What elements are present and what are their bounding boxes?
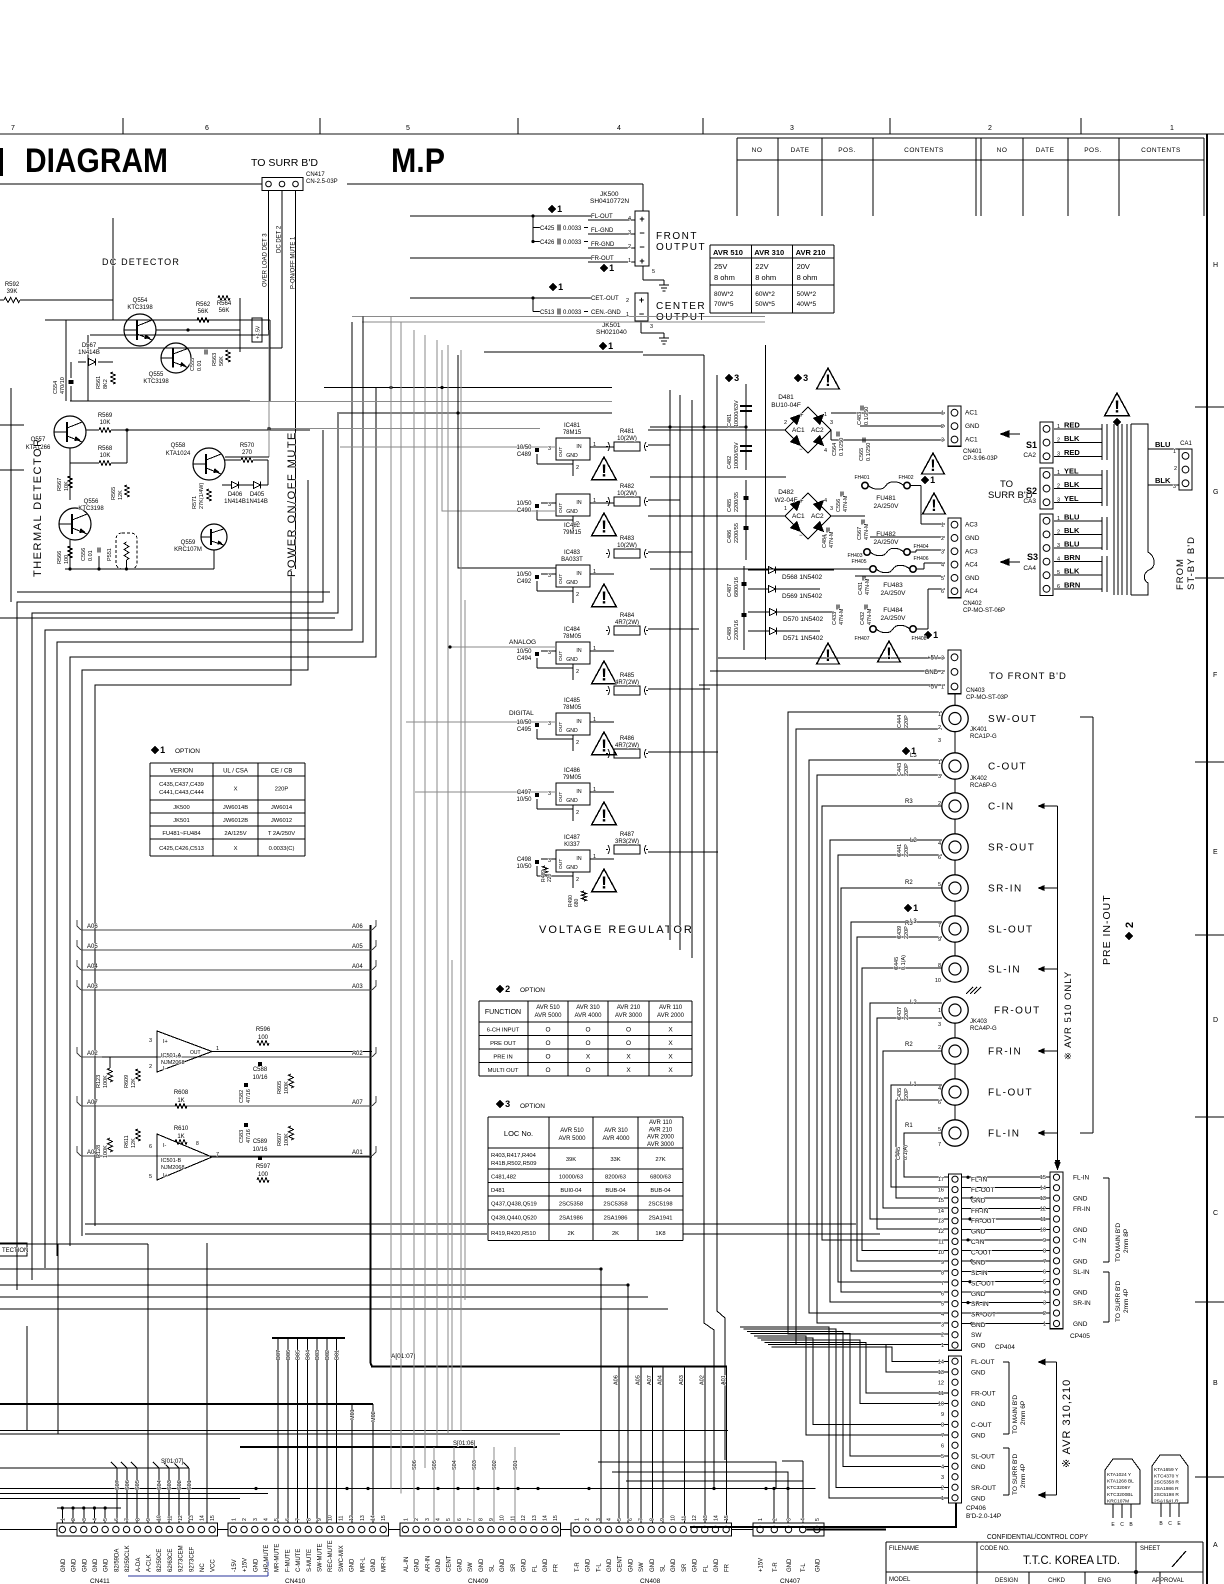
- svg-text:D567: D567: [82, 343, 97, 349]
- svg-text:C-IN: C-IN: [1073, 1237, 1087, 1244]
- svg-text:C481: C481: [727, 414, 733, 427]
- svg-text:8: 8: [196, 1141, 199, 1147]
- svg-text:C: C: [1213, 1210, 1218, 1217]
- svg-text:6: 6: [938, 1100, 941, 1106]
- svg-text:S02: S02: [177, 1480, 183, 1490]
- svg-text:3: 3: [82, 1518, 88, 1521]
- svg-text:FR-OUT: FR-OUT: [971, 1218, 996, 1225]
- svg-text:!: !: [601, 461, 607, 481]
- svg-text:5: 5: [941, 1302, 944, 1308]
- svg-text:BLK: BLK: [1064, 526, 1080, 535]
- svg-text:0.01: 0.01: [88, 550, 94, 561]
- svg-text:!: !: [825, 647, 830, 665]
- svg-text:TECTION: TECTION: [2, 1248, 28, 1254]
- svg-text:OUT: OUT: [558, 574, 564, 584]
- svg-text:S01: S01: [513, 1460, 519, 1470]
- svg-text:GND: GND: [971, 1432, 986, 1439]
- svg-text:FU481: FU481: [876, 495, 896, 502]
- svg-text:S05: S05: [135, 1480, 141, 1490]
- svg-text:1: 1: [593, 498, 596, 504]
- svg-text:8: 8: [938, 963, 941, 969]
- svg-text:O: O: [585, 1027, 590, 1034]
- svg-text:CN409: CN409: [468, 1578, 489, 1584]
- svg-text:SL-OUT: SL-OUT: [971, 1453, 995, 1460]
- svg-text:4: 4: [92, 1518, 98, 1521]
- svg-text:9: 9: [146, 1518, 152, 1521]
- svg-text:SR-IN: SR-IN: [988, 884, 1023, 895]
- svg-text:R570: R570: [240, 443, 255, 449]
- svg-text:C487: C487: [727, 584, 733, 597]
- svg-text:SW: SW: [639, 1562, 645, 1572]
- svg-text:TO MAIN B'D: TO MAIN B'D: [1012, 1395, 1019, 1434]
- svg-text:AC2: AC2: [811, 427, 824, 434]
- svg-text:7: 7: [296, 1518, 302, 1521]
- svg-text:TO FRONT B'D: TO FRONT B'D: [989, 671, 1067, 682]
- svg-text:2: 2: [585, 1518, 591, 1521]
- svg-text:KTA1024: KTA1024: [166, 451, 191, 457]
- svg-text:R566: R566: [57, 551, 63, 564]
- svg-text:2SA1986 R: 2SA1986 R: [1154, 1486, 1179, 1492]
- svg-text:C554: C554: [53, 381, 59, 394]
- svg-text:10/16: 10/16: [252, 1075, 268, 1081]
- svg-text:GND: GND: [543, 1558, 549, 1572]
- svg-text:A07: A07: [87, 1100, 98, 1106]
- svg-text:O: O: [545, 1067, 550, 1074]
- svg-text:11: 11: [681, 1516, 687, 1521]
- svg-text:2A/250V: 2A/250V: [874, 539, 900, 546]
- svg-text:3: 3: [548, 721, 551, 727]
- svg-text:RCA6P-G: RCA6P-G: [970, 783, 997, 789]
- svg-text:R482: R482: [620, 484, 635, 490]
- svg-text:FILENAME: FILENAME: [889, 1546, 919, 1552]
- svg-text:2SC5358: 2SC5358: [559, 1202, 583, 1208]
- svg-text:C435: C435: [897, 1088, 903, 1101]
- svg-text:3: 3: [790, 125, 794, 132]
- svg-text:OUT: OUT: [190, 1050, 201, 1056]
- svg-text:12K: 12K: [118, 490, 124, 500]
- svg-text:10: 10: [157, 1515, 163, 1521]
- svg-text:2: 2: [772, 1518, 778, 1521]
- svg-text:6: 6: [941, 589, 944, 595]
- svg-text:R3: R3: [905, 921, 913, 927]
- svg-text:CODE NO.: CODE NO.: [980, 1546, 1010, 1552]
- svg-text:S02: S02: [492, 1460, 498, 1470]
- svg-text:12: 12: [938, 1229, 944, 1235]
- svg-text:1K8: 1K8: [655, 1231, 665, 1237]
- svg-text:R2: R2: [905, 1042, 913, 1048]
- svg-text:IN: IN: [576, 444, 581, 450]
- svg-text:D06: D06: [286, 1350, 292, 1360]
- svg-text:FR: FR: [554, 1563, 560, 1572]
- svg-text:OVER LOAD DET 3: OVER LOAD DET 3: [263, 233, 269, 287]
- svg-text:220P: 220P: [904, 844, 910, 857]
- svg-text:C489: C489: [517, 452, 532, 458]
- svg-text:HP-MUTE: HP-MUTE: [264, 1545, 270, 1572]
- svg-text:A05: A05: [87, 944, 98, 950]
- svg-text:8 ohm: 8 ohm: [755, 273, 776, 282]
- svg-text:2A/250V: 2A/250V: [881, 615, 907, 622]
- svg-text:S[01:07]: S[01:07]: [161, 1459, 184, 1465]
- svg-text:6: 6: [1043, 1269, 1046, 1275]
- svg-text:10: 10: [938, 1401, 944, 1407]
- svg-text:L1: L1: [910, 1082, 917, 1088]
- svg-text:2: 2: [988, 125, 992, 132]
- svg-text:2: 2: [1174, 466, 1177, 472]
- svg-text:GND: GND: [971, 1369, 986, 1376]
- svg-text:!: !: [601, 588, 607, 608]
- svg-text:CP404: CP404: [995, 1344, 1015, 1351]
- svg-text:C583: C583: [239, 1130, 245, 1143]
- svg-text:KTC3206Y: KTC3206Y: [1107, 1485, 1131, 1491]
- svg-text:7: 7: [1043, 1259, 1046, 1265]
- svg-text:A04: A04: [658, 1375, 664, 1385]
- svg-text:3: 3: [628, 230, 631, 236]
- svg-text:RCA4P-G: RCA4P-G: [970, 1026, 997, 1032]
- svg-text:GND: GND: [586, 1558, 592, 1572]
- svg-text:10: 10: [1040, 1227, 1046, 1233]
- svg-text:0.0033(C): 0.0033(C): [269, 846, 295, 852]
- svg-text:R564: R564: [217, 301, 232, 307]
- svg-text:JK501: JK501: [602, 322, 621, 329]
- svg-text:AVR 510: AVR 510: [713, 248, 743, 257]
- svg-text:2: 2: [576, 877, 579, 883]
- svg-text:KRC107M: KRC107M: [1107, 1498, 1129, 1504]
- svg-text:82/59DA: 82/59DA: [114, 1549, 120, 1572]
- svg-text:5: 5: [938, 882, 941, 888]
- svg-text:R487: R487: [620, 832, 635, 838]
- svg-text:4: 4: [941, 1312, 944, 1318]
- svg-text:BRN: BRN: [1064, 580, 1080, 589]
- svg-text:AVR 210: AVR 210: [617, 1005, 641, 1011]
- svg-text:AVR 4000: AVR 4000: [603, 1136, 631, 1142]
- svg-text:I-: I-: [163, 1143, 167, 1149]
- svg-text:CN401: CN401: [963, 449, 982, 455]
- svg-text:3: 3: [941, 438, 944, 444]
- svg-text:S[01:06]: S[01:06]: [453, 1441, 476, 1447]
- svg-text:82/59CLK: 82/59CLK: [125, 1545, 131, 1572]
- svg-text:AVR 510: AVR 510: [536, 1005, 560, 1011]
- svg-text:9: 9: [317, 1518, 323, 1521]
- svg-text:Q439,Q440,Q520: Q439,Q440,Q520: [491, 1216, 537, 1222]
- svg-text:100K: 100K: [103, 1145, 109, 1158]
- svg-text:Q559: Q559: [181, 540, 196, 546]
- svg-text:3: 3: [941, 1475, 944, 1481]
- svg-text:1: 1: [941, 411, 944, 417]
- svg-text:R484: R484: [620, 613, 635, 619]
- svg-text:8: 8: [941, 1422, 944, 1428]
- svg-text:2: 2: [414, 1518, 420, 1521]
- svg-text:3: 3: [548, 573, 551, 579]
- svg-text:AVR 510: AVR 510: [560, 1128, 584, 1134]
- svg-text:KTC3198: KTC3198: [127, 305, 153, 311]
- svg-text:G: G: [1213, 489, 1218, 496]
- svg-text:10(2W): 10(2W): [617, 543, 637, 549]
- svg-text:C582: C582: [239, 1090, 245, 1103]
- svg-text:H: H: [1213, 262, 1218, 269]
- svg-text:CN417: CN417: [306, 172, 325, 178]
- svg-text:+4.5V: +4.5V: [256, 325, 262, 339]
- svg-text:AC2: AC2: [811, 513, 824, 520]
- svg-text:M01: M01: [350, 1409, 356, 1420]
- svg-text:GND: GND: [628, 1558, 634, 1572]
- svg-text:14: 14: [370, 1515, 376, 1521]
- svg-text:2: 2: [628, 244, 631, 250]
- svg-text:10/50: 10/50: [516, 572, 532, 578]
- svg-text:12K: 12K: [131, 1138, 137, 1148]
- svg-text:GND: GND: [72, 1558, 78, 1572]
- svg-text:FU484: FU484: [883, 607, 903, 614]
- svg-text:S04: S04: [157, 1480, 163, 1490]
- svg-text:SR-OUT: SR-OUT: [971, 1485, 996, 1492]
- svg-text:AVR 2000: AVR 2000: [647, 1135, 675, 1141]
- svg-text:FRONT: FRONT: [656, 231, 698, 242]
- svg-text:8 ohm: 8 ohm: [797, 273, 818, 282]
- svg-text:IC487: IC487: [564, 835, 581, 841]
- svg-text:1: 1: [558, 282, 563, 292]
- svg-text:4R7(2W): 4R7(2W): [615, 620, 639, 626]
- svg-text:SW-OUT: SW-OUT: [988, 714, 1037, 725]
- svg-text:FR-IN: FR-IN: [988, 1047, 1022, 1058]
- svg-text:OUT: OUT: [558, 447, 564, 457]
- svg-text:3: 3: [505, 1099, 510, 1109]
- svg-text:LOC No.: LOC No.: [504, 1129, 533, 1138]
- svg-text:10: 10: [671, 1515, 677, 1521]
- svg-text:CN411: CN411: [90, 1578, 110, 1584]
- svg-text:A05: A05: [636, 1375, 642, 1385]
- svg-text:GND: GND: [965, 535, 980, 542]
- svg-text:FH407: FH407: [854, 636, 869, 642]
- svg-text:IN: IN: [576, 500, 581, 506]
- svg-text:KTC3198: KTC3198: [143, 379, 169, 385]
- svg-text:L2: L2: [910, 838, 917, 844]
- svg-text:RED: RED: [1064, 448, 1080, 457]
- svg-text:D01: D01: [335, 1350, 341, 1360]
- svg-text:4: 4: [801, 1518, 807, 1521]
- svg-text:2: 2: [505, 984, 510, 994]
- svg-text:15: 15: [938, 1198, 944, 1204]
- svg-text:D571 1N5402: D571 1N5402: [783, 635, 823, 642]
- svg-text:C555: C555: [190, 358, 196, 371]
- svg-text:OUT: OUT: [558, 792, 564, 802]
- svg-text:R592: R592: [5, 282, 20, 288]
- svg-text:A04: A04: [352, 964, 363, 970]
- svg-text:FL-OUT: FL-OUT: [971, 1187, 995, 1194]
- svg-text:15: 15: [553, 1515, 559, 1521]
- svg-text:FH402: FH402: [898, 475, 913, 481]
- svg-text:10: 10: [500, 1515, 506, 1521]
- svg-text:5: 5: [149, 1174, 152, 1180]
- svg-text:6-CH INPUT: 6-CH INPUT: [487, 1028, 520, 1034]
- svg-text:1: 1: [1043, 1322, 1046, 1328]
- svg-text:T 2A/250V: T 2A/250V: [268, 831, 295, 837]
- svg-text:C425: C425: [540, 226, 555, 232]
- svg-text:2K: 2K: [567, 1231, 574, 1237]
- svg-text:9: 9: [489, 1518, 495, 1521]
- svg-text:X: X: [668, 1067, 673, 1074]
- svg-text:3: 3: [253, 1518, 259, 1521]
- svg-text:GND: GND: [253, 1558, 259, 1572]
- svg-text:7: 7: [941, 1281, 944, 1287]
- svg-text:Q555: Q555: [149, 372, 164, 378]
- svg-text:100K: 100K: [284, 1133, 290, 1146]
- svg-text:I+: I+: [163, 1173, 168, 1179]
- svg-text:1: 1: [938, 712, 941, 718]
- svg-text:220P: 220P: [904, 926, 910, 939]
- svg-text:AC4: AC4: [965, 588, 978, 595]
- svg-text:BLK: BLK: [1064, 434, 1080, 443]
- svg-text:OPTION: OPTION: [520, 987, 545, 994]
- svg-text:47N-M: 47N-M: [843, 495, 849, 512]
- svg-text:SR-OUT: SR-OUT: [971, 1311, 996, 1318]
- svg-text:T.T.C. KOREA LTD.: T.T.C. KOREA LTD.: [1023, 1555, 1120, 1567]
- svg-text:B: B: [1213, 1380, 1218, 1387]
- svg-text:AVR 4000: AVR 4000: [575, 1013, 603, 1019]
- svg-text:D02: D02: [325, 1350, 331, 1360]
- svg-text:12: 12: [349, 1515, 355, 1521]
- svg-text:2SA1941: 2SA1941: [649, 1216, 673, 1222]
- svg-text:D481: D481: [778, 394, 794, 401]
- svg-text:DATE: DATE: [1036, 147, 1055, 154]
- svg-text:2SC5358 R: 2SC5358 R: [1154, 1480, 1179, 1486]
- svg-text:C: C: [1120, 1522, 1124, 1528]
- svg-text:8: 8: [306, 1518, 312, 1521]
- svg-text:!: !: [601, 665, 607, 685]
- svg-text:KTC3200BL: KTC3200BL: [1107, 1492, 1133, 1498]
- svg-text:T-R: T-R: [575, 1562, 581, 1572]
- svg-text:22V: 22V: [755, 262, 768, 271]
- svg-text:ST-BY B'D: ST-BY B'D: [1186, 536, 1197, 590]
- svg-text:4: 4: [941, 1464, 944, 1470]
- svg-text:R608: R608: [174, 1090, 189, 1096]
- svg-text:1: 1: [593, 442, 596, 448]
- svg-text:GND: GND: [815, 1558, 821, 1572]
- svg-text:DIGITAL: DIGITAL: [509, 710, 534, 717]
- svg-text:8 ohm: 8 ohm: [714, 273, 735, 282]
- svg-text:F: F: [1213, 672, 1217, 679]
- svg-text:2: 2: [938, 1045, 941, 1051]
- svg-text:2mm 4P: 2mm 4P: [1123, 1289, 1130, 1313]
- svg-text:JK403: JK403: [970, 1019, 988, 1025]
- svg-text:A02: A02: [352, 1051, 363, 1057]
- svg-text:GND: GND: [787, 1558, 793, 1572]
- svg-text:27K(1/4W): 27K(1/4W): [199, 483, 205, 509]
- svg-text:GND: GND: [971, 1401, 986, 1408]
- svg-text:17: 17: [938, 1177, 944, 1183]
- svg-text:AVR 310: AVR 310: [576, 1005, 600, 1011]
- svg-text:3: 3: [1057, 543, 1060, 549]
- svg-text:C492: C492: [517, 579, 532, 585]
- svg-text:D406: D406: [228, 492, 243, 498]
- svg-text:6: 6: [938, 855, 941, 861]
- svg-text:1: 1: [1057, 516, 1060, 522]
- svg-text:TO SURR B'D: TO SURR B'D: [1012, 1453, 1019, 1495]
- svg-text:AC3: AC3: [965, 522, 978, 529]
- svg-text:1: 1: [938, 1008, 941, 1014]
- svg-text:VCC: VCC: [211, 1559, 217, 1572]
- svg-text:3: 3: [1173, 484, 1176, 490]
- svg-text:1K: 1K: [177, 1098, 184, 1104]
- svg-text:5: 5: [103, 1518, 109, 1521]
- svg-text:3: 3: [548, 502, 551, 508]
- svg-text:ANALOG: ANALOG: [509, 639, 536, 646]
- svg-text:27K: 27K: [655, 1157, 665, 1163]
- svg-text:C565: C565: [859, 448, 865, 461]
- svg-text:470/10: 470/10: [60, 377, 66, 394]
- svg-text:47N-M: 47N-M: [829, 531, 835, 548]
- svg-text:AR-IN: AR-IN: [425, 1556, 431, 1572]
- svg-text:FROM: FROM: [1175, 558, 1186, 590]
- svg-text:GND: GND: [350, 1558, 356, 1572]
- svg-text:C588: C588: [253, 1067, 268, 1073]
- svg-text:R611: R611: [124, 1135, 130, 1148]
- svg-text:4: 4: [263, 1518, 269, 1521]
- svg-text:50W*2: 50W*2: [797, 291, 817, 298]
- svg-text:IN: IN: [576, 648, 581, 654]
- svg-text:680: 680: [574, 898, 580, 907]
- svg-text:GND: GND: [522, 1558, 528, 1572]
- svg-text:220: 220: [547, 873, 553, 882]
- svg-text:2: 2: [938, 801, 941, 807]
- svg-text:4: 4: [1043, 1290, 1046, 1296]
- svg-text:80W*2: 80W*2: [714, 291, 734, 298]
- svg-text:1: 1: [913, 903, 918, 913]
- svg-text:BLU: BLU: [1064, 512, 1079, 521]
- svg-text:11: 11: [938, 1239, 944, 1245]
- svg-text:5: 5: [941, 576, 944, 582]
- svg-text:2: 2: [941, 1333, 944, 1339]
- svg-text:R2: R2: [905, 880, 913, 886]
- svg-text:OUT: OUT: [558, 503, 564, 513]
- svg-text:AC1: AC1: [965, 437, 978, 444]
- svg-text:14: 14: [938, 1359, 944, 1365]
- svg-text:!: !: [601, 806, 607, 826]
- svg-text:10(2W): 10(2W): [617, 436, 637, 442]
- svg-text:FR-IN: FR-IN: [1073, 1206, 1091, 1213]
- svg-text:7: 7: [216, 1152, 219, 1158]
- svg-text:YEL: YEL: [1064, 494, 1079, 503]
- svg-text:R565: R565: [111, 487, 117, 500]
- svg-text:10/50: 10/50: [516, 797, 532, 803]
- svg-text:CP405: CP405: [1070, 1333, 1090, 1340]
- svg-text:78M05: 78M05: [563, 705, 582, 711]
- svg-text:NO: NO: [997, 147, 1008, 154]
- svg-text:FL: FL: [532, 1564, 538, 1572]
- svg-text:SL-OUT: SL-OUT: [988, 925, 1034, 936]
- svg-text:1: 1: [938, 760, 941, 766]
- svg-text:D568 1N5402: D568 1N5402: [782, 574, 822, 581]
- svg-text:12: 12: [178, 1515, 184, 1521]
- svg-text:OUT: OUT: [558, 859, 564, 869]
- svg-text:PRE OUT: PRE OUT: [490, 1041, 516, 1047]
- svg-text:FUNCTION: FUNCTION: [485, 1009, 521, 1016]
- svg-text:1: 1: [941, 1496, 944, 1502]
- svg-text:3: 3: [1057, 451, 1060, 457]
- svg-text:A-CLK: A-CLK: [146, 1554, 152, 1572]
- svg-text:13: 13: [703, 1515, 709, 1521]
- svg-text:T-L: T-L: [596, 1563, 602, 1572]
- svg-text:9273CEF: 9273CEF: [189, 1546, 195, 1572]
- svg-text:R596: R596: [256, 1027, 271, 1033]
- svg-text:R481: R481: [620, 429, 635, 435]
- svg-text:0.1(A): 0.1(A): [901, 955, 907, 970]
- svg-text:9273CEM: 9273CEM: [179, 1545, 185, 1572]
- svg-text:2: 2: [242, 1518, 248, 1521]
- svg-text:3: 3: [941, 655, 944, 661]
- svg-text:A02: A02: [700, 1375, 706, 1385]
- svg-text:2: 2: [941, 424, 944, 430]
- svg-text:SL-IN: SL-IN: [988, 965, 1021, 976]
- svg-text:10: 10: [935, 978, 941, 984]
